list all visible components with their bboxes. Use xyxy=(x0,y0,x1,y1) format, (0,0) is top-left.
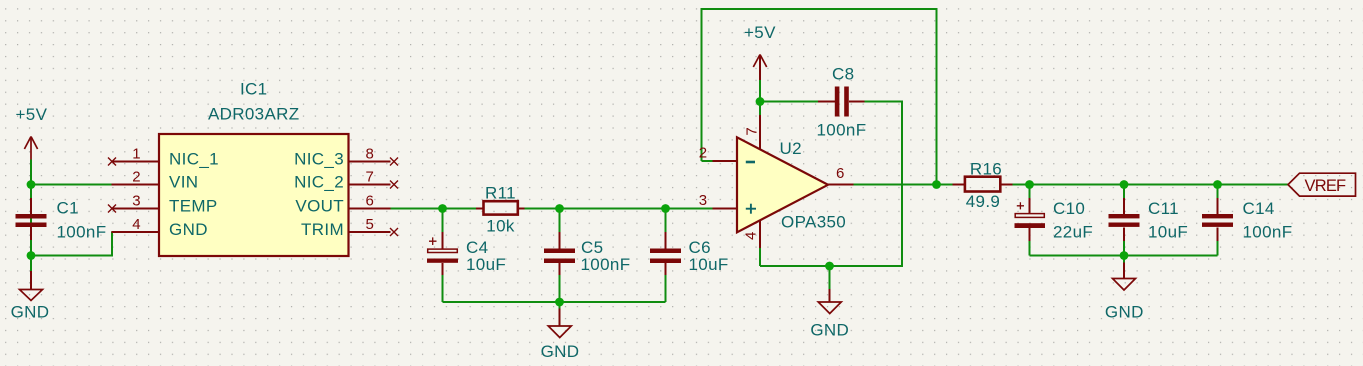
svg-text:6: 6 xyxy=(366,193,375,210)
svg-text:7: 7 xyxy=(744,127,761,136)
svg-text:C11: C11 xyxy=(1148,199,1179,218)
svg-text:NIC_3: NIC_3 xyxy=(294,150,344,169)
svg-text:C1: C1 xyxy=(57,199,79,218)
svg-text:GND: GND xyxy=(541,342,580,361)
svg-text:3: 3 xyxy=(132,193,141,210)
svg-text:C14: C14 xyxy=(1243,199,1275,218)
svg-text:R11: R11 xyxy=(485,184,516,203)
svg-text:10uF: 10uF xyxy=(1148,223,1188,242)
svg-text:GND: GND xyxy=(11,303,50,322)
svg-text:R16: R16 xyxy=(970,160,1002,179)
svg-text:GND: GND xyxy=(169,220,208,239)
svg-text:5: 5 xyxy=(366,216,375,233)
svg-text:C8: C8 xyxy=(832,65,854,84)
svg-text:4: 4 xyxy=(132,216,141,233)
svg-text:3: 3 xyxy=(699,192,708,209)
svg-text:2: 2 xyxy=(699,145,708,162)
svg-text:IC1: IC1 xyxy=(240,80,268,99)
svg-text:10uF: 10uF xyxy=(689,255,729,274)
svg-text:+5V: +5V xyxy=(744,23,776,42)
svg-text:10k: 10k xyxy=(486,217,515,236)
svg-text:NIC_2: NIC_2 xyxy=(294,173,344,192)
svg-text:8: 8 xyxy=(366,146,375,163)
svg-text:C10: C10 xyxy=(1053,199,1085,218)
svg-text:NIC_1: NIC_1 xyxy=(169,150,219,169)
svg-text:7: 7 xyxy=(366,169,375,186)
svg-text:6: 6 xyxy=(836,165,845,182)
svg-text:100nF: 100nF xyxy=(581,255,631,274)
svg-text:VREF: VREF xyxy=(1305,177,1347,195)
svg-text:+5V: +5V xyxy=(16,105,48,124)
svg-text:100nF: 100nF xyxy=(817,121,867,140)
svg-text:10uF: 10uF xyxy=(466,255,506,274)
svg-text:49.9: 49.9 xyxy=(966,192,1001,211)
svg-text:OPA350: OPA350 xyxy=(781,213,846,232)
svg-text:GND: GND xyxy=(1105,303,1144,322)
svg-text:U2: U2 xyxy=(780,139,802,158)
svg-text:1: 1 xyxy=(132,146,141,163)
svg-text:VIN: VIN xyxy=(169,173,198,192)
svg-text:VOUT: VOUT xyxy=(295,197,344,216)
svg-text:4: 4 xyxy=(743,231,760,240)
svg-text:ADR03ARZ: ADR03ARZ xyxy=(208,105,300,124)
svg-text:GND: GND xyxy=(810,321,849,340)
svg-text:TEMP: TEMP xyxy=(169,197,218,216)
svg-text:2: 2 xyxy=(132,169,141,186)
svg-text:100nF: 100nF xyxy=(57,223,107,242)
svg-text:22uF: 22uF xyxy=(1053,223,1093,242)
svg-text:TRIM: TRIM xyxy=(301,220,344,239)
svg-text:100nF: 100nF xyxy=(1243,223,1293,242)
